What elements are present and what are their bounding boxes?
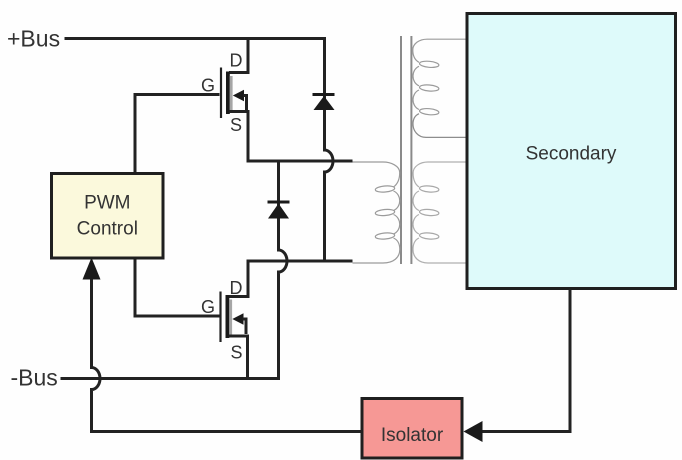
svg-text:+Bus: +Bus <box>7 26 60 52</box>
transformer core line left <box>400 36 402 264</box>
wire gate drive lower (PWM to Q2 gate) <box>135 257 220 317</box>
transformer core line right <box>410 36 412 264</box>
svg-text:-Bus: -Bus <box>11 365 58 391</box>
transistor Q2 channel shading <box>229 300 232 336</box>
svg-text:PWM: PWM <box>84 193 130 214</box>
transformer secondary upper winding curls <box>419 60 439 68</box>
svg-text:G: G <box>201 297 215 317</box>
wire -Bus rail <box>61 377 281 380</box>
wire upper MOSFET drain from +Bus <box>229 37 248 73</box>
diode D1 triangle <box>314 96 335 110</box>
transistor Q1 channel shading <box>230 76 233 112</box>
svg-text:D: D <box>230 51 243 71</box>
transistor Q2 channel bar <box>226 295 230 338</box>
transistor Q1 body arrow <box>233 90 244 101</box>
arrowhead into PWM control <box>83 258 101 280</box>
transistor Q1 arrow tail <box>243 96 247 111</box>
transformer secondary upper winding exit lead (center tap) <box>413 114 467 138</box>
diode D2 triangle <box>268 204 289 219</box>
svg-text:Isolator: Isolator <box>381 425 444 446</box>
wire upper diode branch (from +Bus corner down, hop over midpoint wire, to lower junction) <box>325 37 334 261</box>
transformer secondary upper winding spine <box>413 39 467 109</box>
transformer secondary lower winding spine <box>413 162 467 263</box>
transistor Q1 source stub <box>229 112 248 162</box>
svg-text:D: D <box>230 278 243 298</box>
wire feedback vertical (isolator to PWM, hop over -Bus) <box>92 278 364 432</box>
svg-text:Control: Control <box>77 219 138 240</box>
diode D2 cathode bar <box>268 201 290 204</box>
transistor Q2 arrow tail <box>243 319 247 334</box>
wire lower diode branch (junction at midpoint down, hop over lower wire, to -Bus) <box>279 160 288 378</box>
wire midpoint to transformer primary top <box>247 160 353 163</box>
Isolator box <box>362 399 462 459</box>
transistor Q2 gate bar <box>219 292 221 343</box>
wire lower node to transformer primary bottom <box>247 260 353 263</box>
svg-text:S: S <box>230 343 242 363</box>
svg-text:S: S <box>230 115 242 135</box>
svg-text:G: G <box>201 76 215 96</box>
wire +Bus rail <box>65 37 327 40</box>
transistor Q2 body arrow <box>232 313 243 324</box>
transistor Q1 channel bar <box>226 72 230 115</box>
transistor Q2 source stub <box>229 336 248 379</box>
transformer primary winding spine <box>353 162 400 263</box>
svg-text:Secondary: Secondary <box>526 144 617 165</box>
transistor Q1 gate bar <box>220 68 222 119</box>
arrowhead into Isolator <box>464 421 483 442</box>
wire gate drive upper (PWM to Q1 gate) <box>135 95 220 175</box>
transformer primary winding curls <box>375 185 395 193</box>
PWM Control box <box>52 174 164 259</box>
transformer secondary lower winding curls <box>419 185 439 193</box>
diode D1 cathode bar <box>313 93 335 96</box>
wire Secondary to Isolator <box>481 289 570 432</box>
Secondary box <box>467 14 676 289</box>
wire lower MOSFET drain from lower node <box>229 260 248 297</box>
